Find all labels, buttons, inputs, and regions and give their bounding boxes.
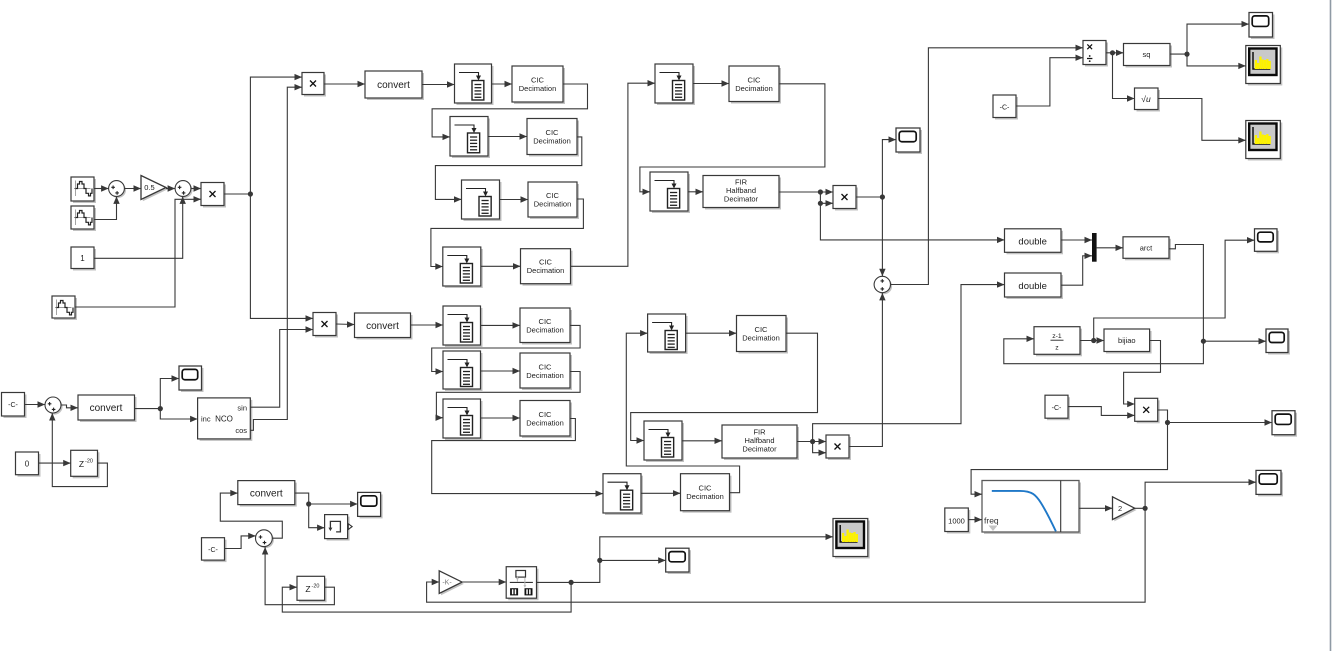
block: CIC Decimation 6 — [520, 353, 572, 390]
svg-text:double: double — [1018, 237, 1047, 248]
canvas right border line — [1330, 0, 1332, 651]
block: CIC Decimation 10 — [681, 474, 732, 513]
wire: junction down -> -K- gain (long feedback) — [427, 508, 1146, 602]
wire: Buffer1 -> CIC1 — [492, 81, 513, 87]
wire: CIC9 -> Buffer12 (loop) — [631, 333, 818, 444]
block: Product 6 (Q squared) — [826, 435, 851, 460]
wire: Sqrt -> SpectrumAnalyzer2 — [1158, 99, 1246, 144]
wire: junction -> Sqrt — [1113, 53, 1135, 102]
block: Constant -C- (bottom left) — [202, 538, 227, 562]
block: Sine Wave 2 (source) — [71, 206, 96, 231]
svg-text:Z: Z — [79, 459, 84, 469]
svg-text:Decimation: Decimation — [527, 266, 565, 275]
wire: Product2 -> convert1 — [324, 81, 365, 87]
wire: CIC8 -> Buffer10 (loop) — [640, 84, 825, 195]
block: Spectrum Analyzer 2 — [1246, 121, 1283, 161]
svg-text:freq: freq — [984, 516, 999, 526]
svg-text:z: z — [1055, 345, 1059, 352]
wire: Constant1000 -> freq port — [968, 516, 982, 522]
wire: bijiao -> Product5 in1 — [1124, 341, 1161, 408]
svg-text:NCO: NCO — [215, 415, 233, 424]
block: arct (arctangent subsystem) — [1123, 237, 1171, 260]
wire: convert2 -> Buffer5 — [411, 322, 444, 328]
wire: CIC3 -> Buffer4 (loop) — [431, 199, 584, 270]
wire: junction -> Product4 in2 — [818, 192, 833, 207]
block: CIC Decimation 8 — [729, 66, 781, 104]
wire: junction up -> Scope5 — [882, 136, 896, 197]
wire: Buffer2 -> CIC2 — [488, 133, 527, 139]
wire: convert4 -> junction -> scope4 — [135, 375, 179, 411]
wire: junction -> Scope8 — [1203, 338, 1266, 344]
wire: junction down -> Sum4 top — [879, 197, 885, 276]
wire: Gain0.5 -> Sum2 — [166, 185, 175, 191]
wire: Buffer8 -> CIC10 — [641, 490, 681, 496]
block: double (Data Type Conversion Q) — [1005, 273, 1064, 299]
block: convert (Data Type Conversion 4) — [78, 395, 137, 422]
block: Delay Z-20 (1) — [71, 450, 100, 478]
block: Buffer 2 — [450, 117, 490, 159]
block: Unbuffer — [506, 567, 538, 601]
block: Buffer 8 — [603, 474, 643, 515]
wire: -C- -> Divide in2 — [1016, 55, 1083, 107]
svg-text:convert: convert — [377, 80, 410, 91]
wire: double1 -> Mux in1 — [1061, 237, 1092, 243]
wire: Product4 out -> junction — [856, 194, 885, 199]
block: Scope 8 (arct out) — [1266, 329, 1290, 355]
block: Delay Z-20 (2) — [297, 576, 327, 602]
wire: Mux -> arct — [1097, 245, 1123, 251]
svg-text:1000: 1000 — [948, 517, 965, 526]
wire: junction up -> Scope7 — [1094, 237, 1255, 341]
block: Buffer 12 — [644, 421, 684, 462]
wire: Sum3 -> convert4 (with jog) — [61, 405, 78, 411]
svg-text:Decimation: Decimation — [526, 419, 564, 428]
wire: Buffer4 -> CIC4 — [481, 263, 521, 269]
svg-text:convert: convert — [366, 321, 399, 332]
wire: Buffer11 -> CIC9 — [686, 330, 737, 336]
block: Product 5 (scale) — [1135, 398, 1160, 423]
wire: Delay1 -> Sum3 bottom (feedback) — [49, 413, 107, 487]
wire: Sine2 -> Sum1 bottom — [94, 196, 120, 219]
wire: CIC10 -> Buffer11 (up loop) — [626, 330, 739, 493]
wire: Product3 -> convert2 — [336, 321, 355, 327]
wire: junction -> SpectrumAnalyzer1 — [1187, 54, 1246, 69]
block: Scope BL (bottom left) — [358, 492, 383, 518]
block: Repeating sequence (unconnected out) — [325, 515, 353, 541]
svg-text:Decimation: Decimation — [735, 84, 773, 93]
svg-text:Decimation: Decimation — [526, 371, 564, 380]
wire: Buffer6 -> CIC6 — [481, 368, 521, 374]
svg-text:-20: -20 — [85, 459, 93, 465]
wire: convert3 -> junction -> ScopeBL — [295, 493, 358, 507]
block: Buffer 9 — [655, 64, 695, 105]
wire: junction -> Product6 in2 — [813, 442, 826, 456]
block: Constant 1 — [71, 247, 96, 271]
wire: junction up -> Product2 in1 — [250, 74, 302, 194]
block: Buffer 10 — [650, 172, 690, 213]
svg-text:2: 2 — [1118, 504, 1122, 513]
block: Constant -C- (divide scale) — [993, 95, 1018, 120]
wire: Buffer3 -> CIC3 — [500, 196, 529, 202]
block: bijiao (compare subsystem) — [1104, 329, 1152, 354]
svg-text:double: double — [1018, 281, 1047, 292]
block: Spectrum Analyzer 1 — [1246, 46, 1283, 86]
wire: z-1/z -> junction -> bijiao — [1080, 337, 1104, 343]
wire: junction -> double1 (branch) — [820, 203, 1004, 243]
wire: Sum4 -> Divide in1 (up) — [891, 45, 1084, 285]
svg-text:Z: Z — [305, 584, 310, 594]
block: Buffer 7 — [443, 399, 483, 440]
block: Divide (I2+Q2 normalize) — [1083, 41, 1108, 67]
wire: FIR1 -> junction -> Product4 in1 — [779, 189, 833, 195]
svg-text:√u: √u — [1141, 94, 1151, 104]
svg-text:Decimation: Decimation — [533, 137, 571, 146]
wire: CIC7 -> Buffer8 (loop) — [432, 419, 603, 497]
block: Scope 10 (audio out) — [1256, 470, 1283, 496]
block: Sum 2 (adds bias 1) — [175, 181, 192, 198]
wire: Sum2 -> Product1 in1 — [191, 185, 201, 191]
wire: convert1 -> Buffer1 — [422, 81, 455, 87]
wire: Buffer12 -> FIR2 — [682, 438, 722, 444]
wire: double2 -> Mux in2 — [1061, 253, 1092, 286]
wire: NCO sin -> Product3 in2 — [250, 326, 313, 407]
wire: -C- -> Sum5 left — [225, 533, 256, 549]
wire: CIC2 -> Buffer3 (loop) — [435, 137, 581, 203]
block: Buffer 6 — [443, 351, 483, 391]
svg-text:-K-: -K- — [442, 580, 452, 587]
wire: Constant0 -> Delay1 — [39, 460, 71, 466]
svg-text:-20: -20 — [312, 584, 320, 590]
wire: Unbuffer -> junction -> up — [537, 534, 834, 585]
wire: Sine1 -> Sum1 — [94, 185, 109, 191]
svg-text:0: 0 — [25, 460, 30, 469]
block: Constant 0 — [16, 452, 41, 477]
wire: Gain2 -> junction -> Scope10 — [1135, 479, 1256, 511]
block: Constant -C- (NCO increment) — [2, 393, 27, 419]
block: Product 1 (modulator) — [201, 183, 226, 208]
block: Gain 0.5 — [141, 176, 168, 202]
block: Buffer 11 — [648, 314, 688, 354]
svg-text:inc: inc — [201, 415, 211, 424]
block: CIC Decimation 9 — [737, 316, 789, 354]
wire: Sum5 -> convert3 (loop up) — [220, 490, 282, 538]
wire: Product5 -> junction -> Scope9 — [1158, 410, 1272, 426]
wire: Sine3 -> Product1 in2 — [75, 196, 201, 307]
block: Gain -K- — [439, 571, 464, 595]
block: FIR Halfband Decimator 1 — [703, 176, 781, 210]
wire: junction -> ScopeB — [600, 557, 666, 563]
wire: Delay2 -> Sum5 bottom (loop) — [262, 547, 335, 605]
wire: Divide -> junction -> sq — [1106, 50, 1124, 56]
block: Product 3 (Q mixer) — [313, 313, 338, 338]
block: Sum 4 (I2+Q2) — [874, 276, 892, 294]
block: Sum 3 (NCO inc + delay) — [45, 397, 63, 415]
block: sq (square subsystem) — [1124, 44, 1173, 68]
block: Spectrum Analyzer B (bottom) — [833, 519, 870, 559]
svg-text:Decimator: Decimator — [742, 445, 777, 454]
block: Buffer 1 — [455, 64, 494, 105]
wire: junction down -> Product3 in1 — [250, 194, 313, 322]
svg-text:Decimation: Decimation — [526, 326, 564, 335]
wire: CIC1 -> Buffer2 (loop) — [432, 84, 587, 140]
svg-text:z-1: z-1 — [1052, 333, 1062, 340]
wire: Product6 out -> Sum4 bottom — [849, 293, 886, 447]
wire: CIC6 -> Buffer7 (loop) — [436, 372, 581, 421]
block: double (Data Type Conversion I) — [1005, 229, 1064, 255]
svg-text:-C-: -C- — [8, 402, 18, 409]
block: CIC Decimation 5 — [520, 308, 572, 345]
block: CIC Decimation 7 — [520, 401, 572, 439]
block: Sqrt (amplitude) — [1135, 88, 1161, 112]
wire: -C- -> Sum3 — [25, 401, 46, 407]
wire: NCO cos -> Product2 in2 — [250, 84, 302, 430]
wire: junction -> Repeating sequence — [309, 504, 325, 531]
block: Product 4 (I squared) — [833, 186, 858, 211]
block: Constant -C- (demod scale) — [1045, 395, 1070, 420]
block: convert (Data Type Conversion 1) — [365, 71, 424, 100]
block: NCO (numerically controlled oscillator) — [198, 398, 253, 441]
block: Scope 5 (I monitor) — [896, 128, 922, 154]
block: Scope 9 (demod out) — [1272, 411, 1297, 437]
wire: junction -> NCO inc — [160, 409, 197, 423]
block: Scope 7 (phase diff) — [1255, 229, 1280, 254]
wire: Buffer5 -> CIC5 — [481, 322, 521, 328]
svg-text:-C-: -C- — [1052, 405, 1062, 412]
block: Lowpass Filter (freq input) — [982, 481, 1081, 535]
wire: junction -> double2 (branch) — [813, 281, 1005, 441]
wire: Buffer7 -> CIC7 — [481, 415, 521, 421]
block: Sine Wave 1 (source) — [71, 177, 96, 203]
block: Buffer 5 — [443, 306, 483, 347]
block: FIR Halfband Decimator 2 — [722, 425, 799, 460]
svg-text:convert: convert — [250, 489, 283, 500]
wire: Sum1 -> Gain0.5 — [124, 185, 141, 191]
wire: Buffer10 -> FIR1 — [688, 189, 703, 195]
svg-text:Decimation: Decimation — [534, 200, 572, 209]
block: Scope 4 (NCO monitor) — [179, 366, 204, 392]
wire: -C- -> Product5 in2 — [1068, 407, 1135, 419]
wire: Lowpass -> Gain2 — [1079, 505, 1113, 511]
block: CIC Decimation 3 — [528, 182, 579, 219]
svg-text:Decimation: Decimation — [742, 334, 780, 343]
block: Gain 2 — [1113, 497, 1137, 522]
svg-text:1: 1 — [80, 254, 85, 263]
block: Buffer 4 — [443, 247, 483, 288]
wire: -K- -> Unbuffer — [462, 579, 506, 585]
block: Constant 1000 (cutoff freq) — [945, 508, 971, 534]
block: CIC Decimation 1 — [512, 66, 565, 104]
wire: arct out -> junction -> z-1/z (feedback loop) — [1004, 245, 1206, 364]
svg-text:0.5: 0.5 — [144, 183, 154, 192]
svg-text:sin: sin — [237, 404, 247, 413]
block: Product 2 (I mixer) — [302, 73, 326, 97]
wire: Buffer9 -> CIC8 — [693, 80, 729, 86]
block: Scope B (bottom) — [666, 548, 691, 574]
block: Sum 5 (bottom left) — [256, 530, 274, 548]
wire: FIR2 -> junction -> Product6 in1 — [797, 438, 826, 444]
wire: junction down -> Delay2 (feedback) — [282, 582, 571, 612]
block: Discrete Derivative z-1/z — [1034, 327, 1082, 357]
block: convert (Data Type Conversion 2) — [355, 313, 413, 340]
svg-text:Decimation: Decimation — [686, 492, 724, 501]
svg-text:convert: convert — [90, 403, 123, 414]
svg-text:-C-: -C- — [1000, 105, 1010, 112]
block: CIC Decimation 4 — [521, 249, 573, 286]
svg-text:bijiao: bijiao — [1118, 336, 1136, 345]
svg-text:cos: cos — [235, 426, 247, 435]
wire: Product5 junction down -> Lowpass input — [971, 423, 1167, 498]
block: Scope 6 (top right) — [1249, 13, 1275, 40]
wire: Product1 out -> junction — [224, 191, 253, 196]
wire: CIC4 -> Buffer9 (up) — [571, 80, 656, 266]
block: Mux (combine I,Q) — [1092, 233, 1097, 262]
svg-text:Decimation: Decimation — [519, 84, 557, 93]
block: Sum 1 (adds Sine1+Sine2) — [109, 181, 126, 198]
wire: CIC5 -> Buffer6 (loop) — [432, 325, 580, 374]
wire: Constant1 -> Sum2 bottom — [94, 196, 186, 258]
block: convert (Data Type Conversion 3) — [238, 481, 297, 507]
block: CIC Decimation 2 — [527, 119, 579, 157]
block: Sine Wave 3 (message) — [52, 296, 77, 320]
svg-text:arct: arct — [1140, 244, 1153, 253]
wire: sq -> junction -> Scope6 — [1170, 21, 1249, 57]
svg-text:-C-: -C- — [208, 547, 218, 554]
svg-text:sq: sq — [1143, 50, 1151, 59]
svg-text:Decimator: Decimator — [724, 195, 759, 204]
block: Buffer 3 — [462, 180, 502, 221]
